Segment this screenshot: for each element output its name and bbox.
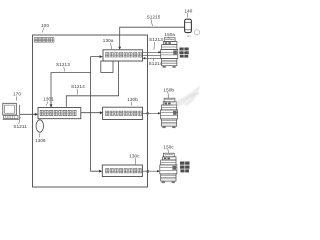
individual logical printer box 1 (130a): [103, 50, 143, 61]
svg-text:140: 140: [184, 9, 192, 14]
print server box 100: [33, 35, 148, 187]
svg-text:S1213: S1213: [149, 37, 163, 42]
svg-text:1306: 1306: [35, 138, 46, 143]
server title (kanji): [34, 38, 54, 43]
junction dot: [147, 112, 149, 114]
wire unified to individual #2: [81, 112, 102, 114]
svg-text:150c: 150c: [163, 144, 174, 149]
wire box3 to printer3: [142, 170, 158, 172]
device 140: [185, 19, 192, 32]
svg-text:S1215: S1215: [147, 14, 161, 19]
dark blob C right of printer3: [180, 162, 190, 173]
individual logical printer box 2 (130b): [103, 107, 143, 119]
svg-text:1301: 1301: [43, 97, 54, 102]
printer 150a: [161, 38, 178, 68]
svg-text:170: 170: [13, 92, 21, 97]
svg-text:100: 100: [41, 23, 49, 28]
watermark squiggle: [171, 87, 200, 107]
unified logical printer box 1301: [38, 108, 81, 119]
client computer 170: [3, 103, 20, 119]
svg-text:S1211: S1211: [13, 124, 27, 129]
wire client to unified printer (S1211): [20, 113, 37, 115]
individual logical printer box 3 (130c): [102, 165, 142, 177]
wire S1215 from device 140 down into box1: [120, 27, 185, 48]
svg-text:130a: 130a: [103, 38, 114, 43]
queue ellipse 1306: [36, 120, 43, 132]
wire S1212 unified to individual #1: [51, 57, 102, 108]
svg-text:130b: 130b: [127, 97, 138, 102]
svg-text:150a: 150a: [164, 32, 175, 37]
wire S1214 box1 bottom to unified top: [66, 61, 118, 107]
svg-text:S1214: S1214: [149, 61, 163, 66]
mark under device: [187, 35, 191, 37]
queue rect under box1: [101, 61, 113, 72]
svg-text:S1214: S1214: [71, 84, 85, 89]
dark blob A right of printer1: [179, 48, 188, 58]
svg-text:150b: 150b: [163, 88, 174, 93]
wires box1 to printer1 (3 lines): [143, 51, 161, 53]
svg-text:S1213: S1213: [56, 62, 70, 67]
svg-text:130c: 130c: [129, 154, 140, 159]
printer 150b: [161, 98, 178, 128]
wire bus down to box3: [91, 73, 101, 172]
faint circle mark top-right: [194, 30, 199, 35]
printer 150c: [160, 153, 177, 183]
wire box2 to printer2: [142, 112, 160, 114]
